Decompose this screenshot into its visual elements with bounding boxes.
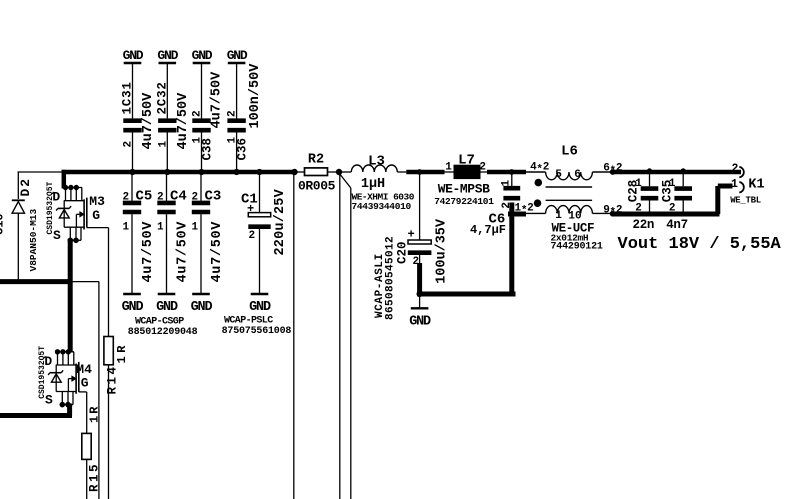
- svg-text:2: 2: [413, 256, 420, 268]
- svg-text:2: 2: [192, 110, 204, 117]
- svg-text:R15: R15: [88, 462, 102, 492]
- svg-text:GND: GND: [192, 48, 213, 63]
- svg-text:L7: L7: [458, 153, 475, 169]
- svg-text:2: 2: [123, 141, 135, 148]
- svg-text:C36: C36: [235, 138, 249, 161]
- svg-text:100u/35V: 100u/35V: [434, 218, 449, 284]
- svg-text:865080545012: 865080545012: [385, 236, 397, 320]
- svg-text:744290121: 744290121: [551, 242, 603, 253]
- svg-text:2: 2: [249, 230, 256, 242]
- svg-text:L3: L3: [368, 154, 385, 170]
- svg-text:C3: C3: [205, 189, 222, 205]
- svg-text:885012209048: 885012209048: [128, 327, 198, 338]
- svg-text:1: 1: [555, 210, 562, 222]
- svg-text:G: G: [81, 376, 89, 391]
- svg-text:5: 5: [555, 169, 562, 181]
- svg-text:4u7/50V: 4u7/50V: [141, 92, 156, 150]
- svg-text:M3: M3: [89, 194, 105, 209]
- svg-text:1: 1: [501, 180, 513, 187]
- svg-text:CSD19532Q5T: CSD19532Q5T: [38, 346, 47, 399]
- svg-text:GND: GND: [227, 48, 248, 63]
- svg-text:GND: GND: [122, 300, 144, 315]
- svg-text:GND: GND: [409, 314, 431, 329]
- svg-text:WE_TBL: WE_TBL: [730, 196, 761, 206]
- svg-text:GND: GND: [191, 300, 213, 315]
- svg-text:WE-MPSB: WE-MPSB: [438, 182, 490, 197]
- svg-text:GND: GND: [123, 48, 144, 63]
- svg-text:GND: GND: [156, 300, 178, 315]
- svg-text:L6: L6: [561, 144, 578, 160]
- svg-text:1: 1: [192, 222, 199, 234]
- svg-text:2: 2: [479, 161, 486, 173]
- svg-text:2: 2: [635, 203, 642, 215]
- svg-text:2C32: 2C32: [155, 81, 169, 114]
- svg-text:22n: 22n: [633, 218, 655, 232]
- svg-text:+: +: [408, 227, 415, 241]
- svg-text:1: 1: [635, 178, 642, 190]
- svg-text:GND: GND: [249, 300, 271, 315]
- svg-text:+: +: [247, 202, 254, 216]
- svg-text:4,7µF: 4,7µF: [470, 223, 506, 237]
- svg-text:CSD19532Q5T: CSD19532Q5T: [46, 181, 55, 234]
- svg-text:C4: C4: [170, 189, 187, 205]
- svg-text:C5: C5: [136, 189, 153, 205]
- svg-text:4u7/50V: 4u7/50V: [210, 71, 225, 129]
- svg-text:2: 2: [123, 192, 130, 204]
- svg-text:GND: GND: [157, 48, 178, 63]
- svg-text:0R005: 0R005: [298, 179, 336, 194]
- svg-text:74279224101: 74279224101: [434, 196, 494, 207]
- svg-text:WCAP-CSGP: WCAP-CSGP: [135, 317, 184, 328]
- svg-text:1: 1: [157, 222, 164, 234]
- svg-text:100n/50V: 100n/50V: [248, 63, 263, 129]
- svg-text:G: G: [92, 208, 100, 223]
- svg-text:220u/25V: 220u/25V: [273, 188, 288, 255]
- svg-text:4u7/50V: 4u7/50V: [176, 92, 191, 150]
- svg-text:Vout 18V / 5,55A: Vout 18V / 5,55A: [618, 235, 782, 254]
- svg-text:2: 2: [157, 192, 164, 204]
- svg-text:WCAP-PSLC: WCAP-PSLC: [224, 316, 273, 327]
- svg-text:R14: R14: [106, 364, 120, 394]
- svg-text:1R: 1R: [115, 342, 129, 363]
- svg-text:1C31: 1C31: [121, 81, 135, 114]
- svg-text:2: 2: [669, 203, 676, 215]
- svg-text:K1: K1: [748, 178, 764, 193]
- svg-text:C20: C20: [396, 241, 410, 264]
- svg-text:4u7/50V: 4u7/50V: [210, 221, 225, 283]
- svg-text:D2: D2: [18, 177, 33, 197]
- svg-text:74439344010: 74439344010: [352, 201, 412, 212]
- svg-text:C10: C10: [0, 213, 7, 235]
- svg-text:1: 1: [445, 161, 452, 173]
- svg-text:875075561008: 875075561008: [222, 326, 292, 337]
- svg-text:R2: R2: [308, 153, 324, 168]
- svg-text:1: 1: [669, 178, 676, 190]
- svg-text:1: 1: [157, 141, 169, 148]
- svg-text:V8PAN50-M13: V8PAN50-M13: [28, 208, 39, 271]
- svg-text:4n7: 4n7: [666, 218, 688, 232]
- svg-text:4u7/50V: 4u7/50V: [176, 221, 191, 283]
- svg-text:C38: C38: [200, 138, 214, 161]
- svg-text:6: 6: [574, 169, 581, 181]
- svg-text:2: 2: [732, 163, 739, 176]
- svg-text:1µH: 1µH: [361, 177, 385, 192]
- svg-text:2: 2: [192, 192, 199, 204]
- svg-text:1: 1: [731, 178, 738, 191]
- svg-text:4u7/50V: 4u7/50V: [141, 221, 156, 283]
- svg-text:1: 1: [123, 222, 130, 234]
- svg-text:2: 2: [227, 110, 239, 117]
- svg-text:1R: 1R: [88, 405, 102, 423]
